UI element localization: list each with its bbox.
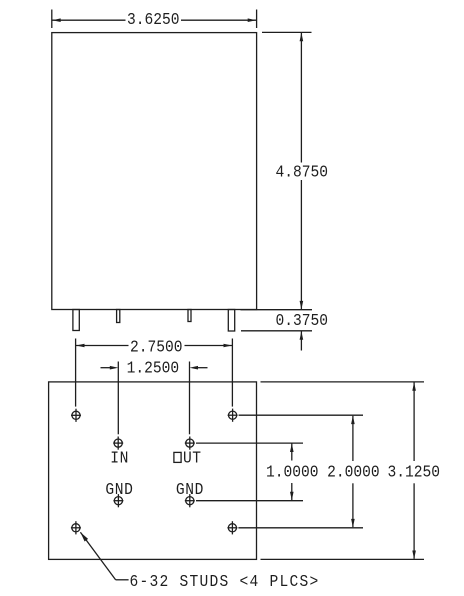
svg-text:GND: GND <box>176 480 204 499</box>
svg-text:2.0000: 2.0000 <box>327 462 380 481</box>
svg-text:2.7500: 2.7500 <box>130 338 183 357</box>
svg-text:0.3750: 0.3750 <box>275 311 328 330</box>
svg-text:3.6250: 3.6250 <box>127 10 180 29</box>
svg-text:4.8750: 4.8750 <box>276 163 329 182</box>
svg-text:1.0000: 1.0000 <box>266 462 319 481</box>
svg-text:6-32 STUDS <4 PLCS>: 6-32 STUDS <4 PLCS> <box>130 572 320 591</box>
svg-text:1.2500: 1.2500 <box>127 359 180 378</box>
svg-text:GND: GND <box>105 480 133 499</box>
svg-text:3.1250: 3.1250 <box>388 462 441 481</box>
svg-text:UT: UT <box>183 449 202 468</box>
svg-text:IN: IN <box>110 449 129 468</box>
